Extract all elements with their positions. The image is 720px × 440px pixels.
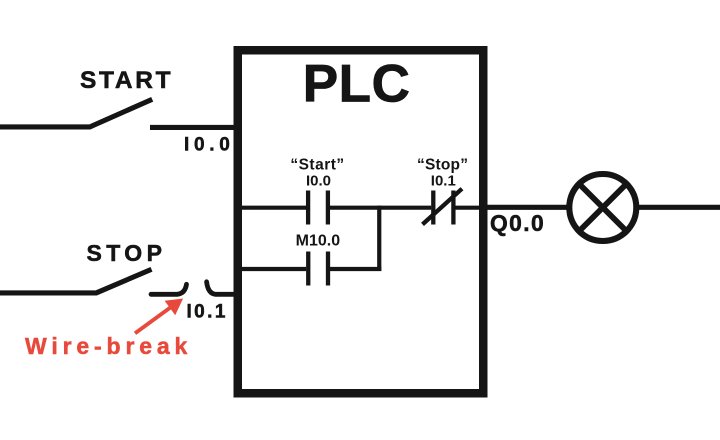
PLC enclosure box U1	[238, 50, 484, 393]
wire: junction vertical branch line	[377, 206, 381, 271]
svg-text:START: START	[80, 67, 173, 94]
wire: PLC output Q0.0 to lamp	[487, 205, 568, 210]
svg-text:M10.0: M10.0	[296, 233, 341, 250]
wire: ladder rung from left rail to Start contact	[242, 206, 306, 210]
svg-text:I0.0: I0.0	[184, 135, 235, 156]
wire: branch rung from left rail to M10.0 contact	[242, 267, 306, 271]
wire: START switch to PLC input I0.0	[150, 125, 236, 130]
contact M10.0 normally-open, left bar	[306, 252, 310, 286]
svg-text:I0.1: I0.1	[187, 302, 228, 323]
svg-text:“Stop”: “Stop”	[417, 157, 468, 174]
contact M10.0 normally-open, right bar	[326, 252, 330, 286]
svg-text:I0.1: I0.1	[431, 172, 456, 189]
wire: left input wire to START switch	[0, 99, 152, 127]
contact I0.0 "Start" normally-open, right bar	[326, 191, 330, 225]
wire: broken wire right piece with upturned end, to PLC input I0.1	[207, 282, 234, 295]
lamp L1 cross stroke 2	[577, 182, 629, 234]
wire: lamp to right edge	[639, 205, 720, 210]
contact I0.1 "Stop" normally-closed, right bar	[451, 191, 455, 225]
contact I0.1 "Stop" normally-closed, left bar	[431, 191, 435, 225]
contact I0.0 "Start" normally-open, left bar	[306, 191, 310, 225]
svg-text:I0.0: I0.0	[306, 172, 331, 189]
wire: broken wire left piece with upturned end	[151, 284, 187, 294]
wire: left input wire to STOP switch	[0, 269, 152, 293]
contact I0.1 normally-closed slash	[423, 189, 463, 225]
lamp L1 (indicator lamp circle)	[569, 174, 636, 241]
svg-text:“Start”: “Start”	[290, 157, 344, 174]
svg-text:Wire-break: Wire-break	[25, 333, 192, 359]
annotation arrow pointing to wire break	[135, 299, 183, 334]
lamp L1 cross stroke 1	[577, 182, 629, 234]
svg-text:STOP: STOP	[87, 240, 167, 266]
wire: rung from Stop contact to right rail	[455, 206, 479, 210]
svg-text:Q0.0: Q0.0	[490, 210, 545, 236]
wire: rung from Start contact to junction, on to Stop contact	[330, 206, 432, 210]
wire: branch rung from M10.0 contact to junction	[330, 267, 381, 271]
svg-text:PLC: PLC	[303, 55, 411, 114]
